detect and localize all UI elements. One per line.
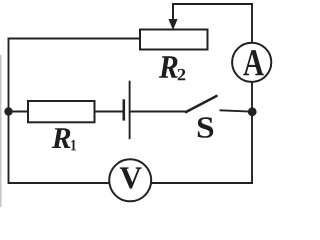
wire wiper to ammeter (up, across, down to ammeter top) xyxy=(173,4,252,42)
wire left side xyxy=(8,39,10,184)
node right (junction dot) xyxy=(248,107,257,116)
ammeter A xyxy=(232,43,271,82)
wire middle: R1 to battery xyxy=(95,111,124,113)
rheostat wiper arrow xyxy=(168,4,177,30)
voltmeter V xyxy=(109,159,151,201)
switch S blade xyxy=(186,96,217,112)
node left (junction dot) xyxy=(4,107,12,115)
wire top (left node to R2 left terminal) xyxy=(9,38,141,40)
wire bottom right (voltmeter to right corner) xyxy=(152,182,253,184)
label R1 xyxy=(52,128,76,150)
wire middle: battery to switch pivot xyxy=(130,111,186,113)
scan artifact: faint left edge streak xyxy=(0,55,2,207)
label R2 xyxy=(159,56,185,80)
wire right side lower (ammeter to bottom corner) xyxy=(251,83,253,184)
wire bottom left (to voltmeter) xyxy=(9,182,110,184)
battery cell xyxy=(124,81,130,140)
rheostat R2 xyxy=(140,30,208,50)
wire middle: left node to R1 xyxy=(9,111,29,113)
resistor R1 xyxy=(28,101,95,122)
wire switch contact to right node xyxy=(221,110,253,111)
label S xyxy=(198,117,213,137)
